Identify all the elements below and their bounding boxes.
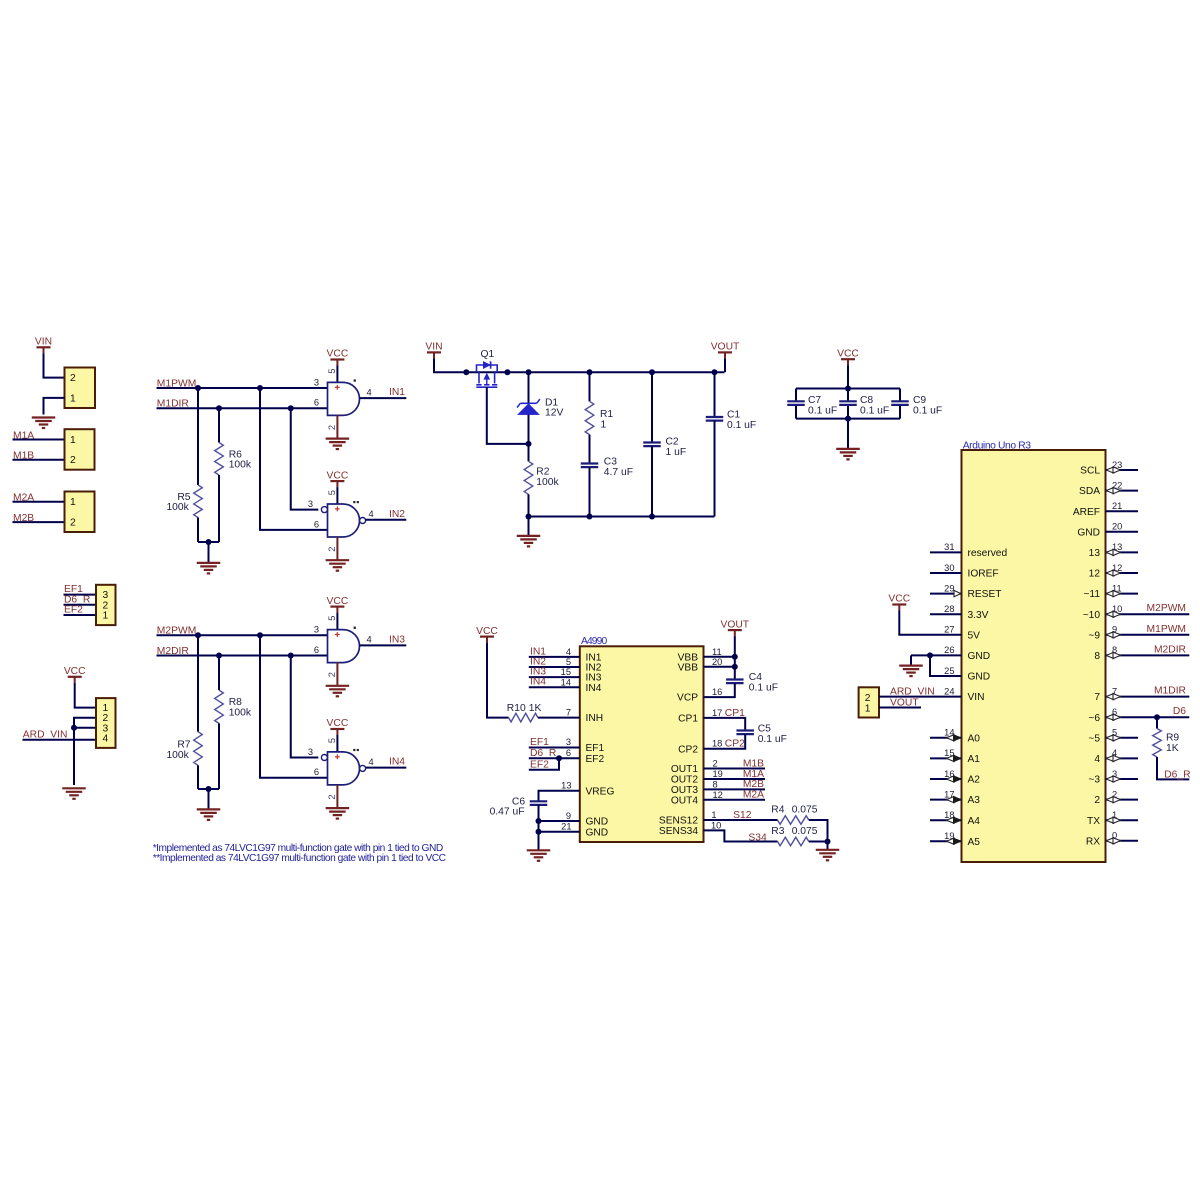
power symbol VOUT (A4990 VBB) <box>720 619 749 636</box>
svg-text:A3: A3 <box>968 795 981 806</box>
svg-text:12: 12 <box>1112 563 1122 573</box>
pin number 4 (gate U3) <box>367 635 372 645</box>
svg-text:M2PWM: M2PWM <box>1147 603 1186 614</box>
svg-text:5: 5 <box>566 657 571 667</box>
wire OUT M2B <box>704 788 766 790</box>
svg-text:15: 15 <box>944 748 954 758</box>
junction M2PWM branch <box>257 632 263 638</box>
wire IN2 to A4990 <box>529 666 580 668</box>
wire rail Q1 to VOUT stem <box>466 371 724 373</box>
wire gate U1 output <box>360 397 407 399</box>
pin 18 A4 (Arduino left) <box>930 810 962 823</box>
svg-text:18: 18 <box>712 739 722 749</box>
svg-text:16: 16 <box>712 687 722 697</box>
svg-text:OUT2: OUT2 <box>671 775 699 786</box>
junction Q1 source <box>463 369 469 375</box>
wire Arduino GND pin 26 <box>911 654 962 656</box>
svg-text:VCC: VCC <box>888 594 910 605</box>
gate U1 (AND, 74LVC1G97) <box>328 379 360 415</box>
wire VCC to gate U2 pin 5 <box>336 487 338 504</box>
svg-text:6: 6 <box>314 398 319 408</box>
wire M2DIR to gate U3 pin 6 <box>157 655 328 657</box>
pin 20 GND (Arduino right) <box>1106 522 1139 532</box>
svg-text:R5: R5 <box>177 492 190 503</box>
wire gate U4 output <box>366 767 407 769</box>
net label M1B <box>743 758 764 769</box>
wire VCC to gate U3 pin 5 <box>336 613 338 630</box>
wire rail to R1 <box>589 372 591 401</box>
wire gate U4 pin 2 to ground <box>336 785 338 808</box>
svg-text:100k: 100k <box>229 707 252 718</box>
net label IN3 <box>389 634 405 645</box>
svg-text:GND: GND <box>586 827 609 838</box>
wire gnd rail R5-R6 <box>198 541 219 543</box>
svg-text:7: 7 <box>566 708 571 718</box>
net label VOUT (Arduino) <box>890 697 919 708</box>
net label IN1 (A4990 input) <box>530 646 546 657</box>
pin 12 12 (Arduino right) <box>1106 563 1139 576</box>
resistor R5 100k <box>166 485 202 518</box>
svg-text:0.47 uF: 0.47 uF <box>490 807 525 818</box>
svg-text:Q1: Q1 <box>481 349 495 360</box>
net label EF2 (left) <box>64 605 83 616</box>
wire gnd rail <box>529 516 715 518</box>
svg-text:A5: A5 <box>968 837 981 848</box>
wire R6 to gnd rail <box>218 475 220 542</box>
pin number 19 (A4990 OUT) <box>713 769 723 779</box>
net label IN2 <box>389 509 405 520</box>
svg-text:1K: 1K <box>529 703 542 714</box>
wire gnd rail R7-R8 <box>198 788 219 790</box>
net label IN2 (A4990 input) <box>530 656 546 667</box>
ground under R5 R6 <box>197 542 221 573</box>
svg-text:RESET: RESET <box>968 589 1002 600</box>
svg-text:1: 1 <box>70 435 76 446</box>
pin name ~3 (Arduino) <box>1088 775 1100 786</box>
connector VIN 2-pin <box>65 368 96 409</box>
ground under A4990 <box>527 850 551 861</box>
svg-text:3: 3 <box>308 747 313 757</box>
svg-text:9: 9 <box>566 811 571 821</box>
pin name 3.3V (Arduino) <box>968 610 989 621</box>
power symbol VCC (decoupling) <box>837 348 859 365</box>
capacitor C7 0.1uF <box>787 395 837 416</box>
svg-text:A4: A4 <box>968 816 981 827</box>
wire C4 to VCP pin 16 <box>704 683 735 697</box>
net label D6_R (A4990) <box>530 748 556 759</box>
power symbol VIN (Q1 input) <box>425 342 442 359</box>
svg-text:1 uF: 1 uF <box>666 447 687 458</box>
connector ARD_VIN/VOUT 2-pin <box>859 687 879 717</box>
svg-text:A0: A0 <box>968 733 981 744</box>
svg-text:14: 14 <box>944 728 954 738</box>
pin name A0 (Arduino) <box>968 733 981 744</box>
svg-text:GND: GND <box>968 651 991 662</box>
svg-text:19: 19 <box>713 769 723 779</box>
wire R10 to INH pin 7 <box>538 717 580 719</box>
pin name RESET (Arduino) <box>968 589 1002 600</box>
svg-text:M2A: M2A <box>743 790 764 801</box>
svg-text:8: 8 <box>1094 651 1100 662</box>
svg-text:2: 2 <box>1094 795 1100 806</box>
svg-text:VCC: VCC <box>327 596 349 607</box>
net label M1A <box>743 769 764 780</box>
svg-text:OUT3: OUT3 <box>671 785 699 796</box>
net label M2PWM <box>1147 603 1186 614</box>
svg-text:RX: RX <box>1086 836 1100 847</box>
pin 2 2 (Arduino right) <box>1106 789 1139 802</box>
wire R3 to gnd <box>809 841 828 843</box>
svg-text:R1: R1 <box>600 409 613 420</box>
ground under gate U3 <box>326 686 350 697</box>
footnote line 2 <box>153 853 446 864</box>
wire VREG to C6 <box>539 791 580 802</box>
wire VCC to Arduino 5V <box>899 611 961 635</box>
pin number 6 (gate U3) <box>314 645 319 655</box>
net label IN4 (A4990 input) <box>530 677 546 688</box>
wire rail to C1 <box>714 372 716 417</box>
pin number 4 (A4990) <box>566 647 571 657</box>
wire M1DIR to gate U1 pin 6 <box>157 407 328 409</box>
capacitor C6 0.47uF <box>490 796 548 817</box>
wire R4 to gnd <box>809 820 828 842</box>
svg-text:R8: R8 <box>229 697 242 708</box>
svg-text:R7: R7 <box>177 739 190 750</box>
IC Arduino Uno R3 body <box>962 440 1106 862</box>
svg-text:reserved: reserved <box>968 548 1008 559</box>
svg-text:C7: C7 <box>808 395 821 406</box>
pin 15 A1 (Arduino left) <box>930 748 962 761</box>
svg-text:1: 1 <box>70 394 76 405</box>
net label D6_R (R9) <box>1164 769 1190 780</box>
svg-text:R3: R3 <box>771 826 784 837</box>
resistor R2 100k <box>524 461 559 494</box>
svg-text:VOUT: VOUT <box>711 342 740 353</box>
wire M2PWM to gate U3 pin 3 <box>157 634 328 636</box>
wire Arduino GND pin 25 <box>930 655 962 676</box>
svg-text:IN4: IN4 <box>389 757 405 768</box>
net label S12 <box>733 810 752 821</box>
pin name A3 (Arduino) <box>968 795 981 806</box>
svg-text:0.075: 0.075 <box>792 826 818 837</box>
ground under power rail <box>517 517 541 547</box>
pin number 5 (A4990) <box>566 657 571 667</box>
wire OUT M2A <box>704 799 766 801</box>
capacitor C2 1uF <box>643 437 686 458</box>
svg-text:13: 13 <box>561 781 571 791</box>
pin name GND (A4990 left) <box>586 817 609 828</box>
pin name ~6 (Arduino) <box>1088 713 1100 724</box>
svg-text:SDA: SDA <box>1079 486 1100 497</box>
svg-text:13: 13 <box>1112 542 1122 552</box>
pin number 5 (gate U4) <box>327 738 337 743</box>
pin name GND (Arduino) <box>968 672 991 683</box>
svg-text:C3: C3 <box>604 456 617 467</box>
pin number 3 (gate U1) <box>314 377 319 387</box>
svg-text:6: 6 <box>314 519 319 529</box>
ground under gate U2 <box>326 560 350 571</box>
svg-text:C2: C2 <box>666 437 679 448</box>
wire gate U2 pin 2 to ground <box>336 537 338 560</box>
svg-text:6: 6 <box>314 767 319 777</box>
wire gate U1 pin 2 to ground <box>336 415 338 438</box>
svg-text:2: 2 <box>865 693 871 704</box>
svg-text:20: 20 <box>1112 522 1122 532</box>
svg-text:4: 4 <box>367 635 372 645</box>
pin number 2 (gate U3) <box>327 672 337 677</box>
resistor R9 1K <box>1153 729 1180 758</box>
pin number 3 (gate U3) <box>314 625 319 635</box>
svg-text:29: 29 <box>944 583 954 593</box>
wire Q1 gate to D1 bottom <box>487 387 529 444</box>
pin name 2 (Arduino) <box>1094 795 1100 806</box>
svg-text:4: 4 <box>1112 748 1117 758</box>
wire VCC to gate U1 pin 5 <box>336 366 338 383</box>
svg-text:A1: A1 <box>968 754 981 765</box>
pin number 3 (gate U4) <box>308 747 313 757</box>
net label CP2 <box>725 739 745 750</box>
net label IN3 (A4990 input) <box>530 667 546 678</box>
svg-text:VCC: VCC <box>476 626 498 637</box>
svg-text:2: 2 <box>327 425 337 430</box>
pin name VIN (Arduino) <box>968 692 985 703</box>
pin number 6 (gate U1) <box>314 398 319 408</box>
pin name VBB (A4990 right) <box>678 662 699 673</box>
svg-text:3: 3 <box>308 499 313 509</box>
pin number 3 (A4990 EF1) <box>566 737 571 747</box>
wire M1PWM to gate U1 pin 3 <box>157 387 328 389</box>
wire D6_R to connector <box>64 604 97 606</box>
svg-text:C1: C1 <box>727 410 740 421</box>
svg-text:4: 4 <box>103 733 109 744</box>
wire M2DIR branch to gate U4 pin 3 <box>291 656 319 758</box>
pin 19 A5 (Arduino left) <box>930 831 962 844</box>
pin name reserved (Arduino) <box>968 548 1008 559</box>
wire D6_R to A4990 pin 6 <box>529 757 580 759</box>
pin number 3 (gate U2) <box>308 499 313 509</box>
svg-text:R4: R4 <box>771 804 784 815</box>
wire VCC to cap rail <box>847 365 849 388</box>
svg-text:4: 4 <box>369 757 374 767</box>
pin name IOREF (Arduino) <box>968 569 999 580</box>
power symbol VCC (gate U2) <box>327 470 349 487</box>
svg-text:19: 19 <box>944 831 954 841</box>
pin number 2 (A4990 OUT) <box>713 759 718 769</box>
junction Arduino GND <box>927 652 933 658</box>
svg-text:VCP: VCP <box>677 693 698 704</box>
svg-text:R9: R9 <box>1166 733 1179 744</box>
pin 25 GND (Arduino left) <box>944 666 954 676</box>
wire M1PWM down to R5 <box>197 388 199 485</box>
svg-text:CP2: CP2 <box>678 744 698 755</box>
pin name EF2 (A4990 left) <box>586 754 605 765</box>
svg-text:3: 3 <box>314 625 319 635</box>
svg-text:GND: GND <box>968 672 991 683</box>
svg-text:3.3V: 3.3V <box>968 610 989 621</box>
pin 10 ~10 (Arduino right) <box>1106 604 1190 617</box>
svg-text:11: 11 <box>1112 583 1122 593</box>
wire R9 to D6_R <box>1157 757 1189 779</box>
pin name 7 (Arduino) <box>1094 692 1100 703</box>
junction M2PWM R7 <box>195 632 201 638</box>
net label CP1 <box>725 708 745 719</box>
wire connector pin 1 to ground <box>44 398 65 415</box>
ground at Arduino GND pins <box>899 655 923 676</box>
wire C1 to gnd rail <box>714 421 716 517</box>
svg-text:~9: ~9 <box>1088 630 1100 641</box>
wire C5 to CP2 pin 18 <box>704 734 746 749</box>
capacitor C4 0.1uF <box>726 672 778 693</box>
connector ARD_VIN 4-pin <box>96 698 116 748</box>
power symbol VCC (gate U3) <box>327 596 349 613</box>
svg-text:24: 24 <box>944 686 954 696</box>
wire gate U3 pin 2 to ground <box>336 663 338 686</box>
pin name VREG (A4990 left) <box>586 786 615 797</box>
svg-text:M1B: M1B <box>743 758 764 769</box>
pin number 4 (gate U4) <box>369 757 374 767</box>
svg-text:2: 2 <box>1112 789 1117 799</box>
svg-text:8: 8 <box>1112 645 1117 655</box>
power symbol VCC (Arduino 5V) <box>888 594 910 611</box>
svg-text:M2DIR: M2DIR <box>1154 644 1186 655</box>
pin name A4 (Arduino) <box>968 816 981 827</box>
pin name OUT4 (A4990 right) <box>671 795 699 806</box>
net label M1DIR <box>1154 686 1186 697</box>
ground under decoupling caps <box>836 419 860 460</box>
pin name OUT2 (A4990 right) <box>671 775 699 786</box>
svg-text:D6_R: D6_R <box>1164 769 1190 780</box>
svg-text:1: 1 <box>711 810 716 820</box>
pin name AREF (Arduino) <box>1073 507 1100 518</box>
svg-text:30: 30 <box>944 563 954 573</box>
pin 5 ~5 (Arduino right) <box>1106 728 1139 741</box>
ground under ARD_VIN connector <box>62 788 86 799</box>
resistor R7 100k <box>166 732 202 766</box>
svg-text:6: 6 <box>1112 707 1117 717</box>
junction EF2 D6_R <box>556 755 562 761</box>
svg-text:16: 16 <box>944 769 954 779</box>
pin number 21 (A4990 GND) <box>561 822 571 832</box>
gate U2 (AND w/ inverted input+output) <box>321 501 365 537</box>
svg-text:14: 14 <box>561 677 571 687</box>
wire gate U3 output <box>360 644 407 646</box>
pin name IN3 (A4990 left) <box>586 673 602 684</box>
wire IN3 to A4990 <box>529 676 580 678</box>
gate U4 (AND w/ inverted input+output) <box>321 749 365 785</box>
svg-text:M1PWM: M1PWM <box>1147 624 1186 635</box>
pin name SENS34 (A4990 right) <box>659 826 698 837</box>
zener diode D1 12V <box>517 397 563 418</box>
resistor R4 0.075 <box>771 804 817 824</box>
pin name A1 (Arduino) <box>968 754 981 765</box>
svg-text:17: 17 <box>712 708 722 718</box>
pin name IN2 (A4990 left) <box>586 663 602 674</box>
capacitor C3 4.7uF <box>581 456 633 477</box>
junction D6 R9 <box>1154 714 1160 720</box>
wire D1 top lead <box>528 372 530 403</box>
pin name VBB (A4990 right) <box>678 652 699 663</box>
svg-text:1: 1 <box>70 497 76 508</box>
svg-text:8: 8 <box>713 780 718 790</box>
net label D6 <box>1173 706 1186 717</box>
svg-text:20: 20 <box>712 657 722 667</box>
svg-text:VCC: VCC <box>837 348 859 359</box>
pin 27 5V (Arduino left) <box>944 625 954 635</box>
svg-text:2: 2 <box>327 794 337 799</box>
svg-text:CP2: CP2 <box>725 739 745 750</box>
svg-text:VCC: VCC <box>327 349 349 360</box>
wire M1DIR down to R6 <box>218 408 220 442</box>
net label M2B <box>743 779 764 790</box>
net label M2A <box>13 493 34 504</box>
svg-text:5: 5 <box>1112 728 1117 738</box>
pin 1 TX (Arduino right) <box>1106 810 1139 823</box>
pin 0 RX (Arduino right) <box>1106 831 1139 844</box>
svg-text:13: 13 <box>1089 548 1101 559</box>
pin number 5 (gate U3) <box>327 616 337 621</box>
pin name OUT1 (A4990 right) <box>671 764 699 775</box>
wire down to ground <box>73 728 75 785</box>
svg-text:27: 27 <box>944 625 954 635</box>
svg-text:0.1 uF: 0.1 uF <box>860 406 889 417</box>
net label M1DIR <box>157 399 189 410</box>
pin 11 ~11 (Arduino right) <box>1106 583 1139 596</box>
wire C2 to gnd rail <box>651 446 653 516</box>
svg-text:22: 22 <box>1112 480 1122 490</box>
pin number 7 (A4990 INH) <box>566 708 571 718</box>
pin 29 RESET (Arduino left) <box>930 583 962 596</box>
svg-text:**Implemented as 74LVC1G97 mul: **Implemented as 74LVC1G97 multi-functio… <box>153 853 446 864</box>
pin name GND (Arduino) <box>968 651 991 662</box>
pin number 18 (A4990 CP2) <box>712 739 722 749</box>
pin number 5 (gate U1) <box>327 368 337 373</box>
capacitor C8 0.1uF <box>839 389 889 419</box>
svg-text:AREF: AREF <box>1073 507 1100 518</box>
pin name ~11 (Arduino) <box>1083 589 1100 600</box>
svg-text:VCC: VCC <box>327 470 349 481</box>
svg-text:VIN: VIN <box>425 342 442 353</box>
wire CP1 pin 17 to C5 <box>704 718 746 731</box>
svg-text:GND: GND <box>1077 527 1100 538</box>
net label EF1 (left) <box>64 584 83 595</box>
svg-text:2: 2 <box>327 547 337 552</box>
svg-text:IOREF: IOREF <box>968 569 999 580</box>
pin name A5 (Arduino) <box>968 837 981 848</box>
svg-text:IN2: IN2 <box>389 509 405 520</box>
svg-text:12: 12 <box>713 790 723 800</box>
svg-text:CP1: CP1 <box>725 708 745 719</box>
svg-text:~6: ~6 <box>1088 713 1100 724</box>
svg-text:4: 4 <box>369 509 374 519</box>
ground under gate U1 <box>326 439 350 450</box>
svg-text:M1A: M1A <box>743 769 764 780</box>
pin name 5V (Arduino) <box>968 630 981 641</box>
power symbol VCC (gate U1) <box>327 349 349 366</box>
svg-text:17: 17 <box>944 789 954 799</box>
wire M2PWM branch to gate U4 pin 6 <box>260 635 328 778</box>
net label ARD_VIN (left) <box>23 730 68 741</box>
svg-text:4: 4 <box>566 647 571 657</box>
pin name ~10 (Arduino) <box>1083 610 1101 621</box>
pin 8 8 (Arduino right) <box>1106 645 1190 658</box>
wire ARD_VIN to pin 4 <box>23 739 97 741</box>
wire C6 to ground <box>538 805 540 850</box>
svg-text:1: 1 <box>601 419 607 430</box>
net label M1A <box>13 430 34 441</box>
svg-text:~5: ~5 <box>1088 733 1100 744</box>
wire C3 to gnd rail <box>589 467 591 516</box>
pin name TX (Arduino) <box>1087 816 1100 827</box>
